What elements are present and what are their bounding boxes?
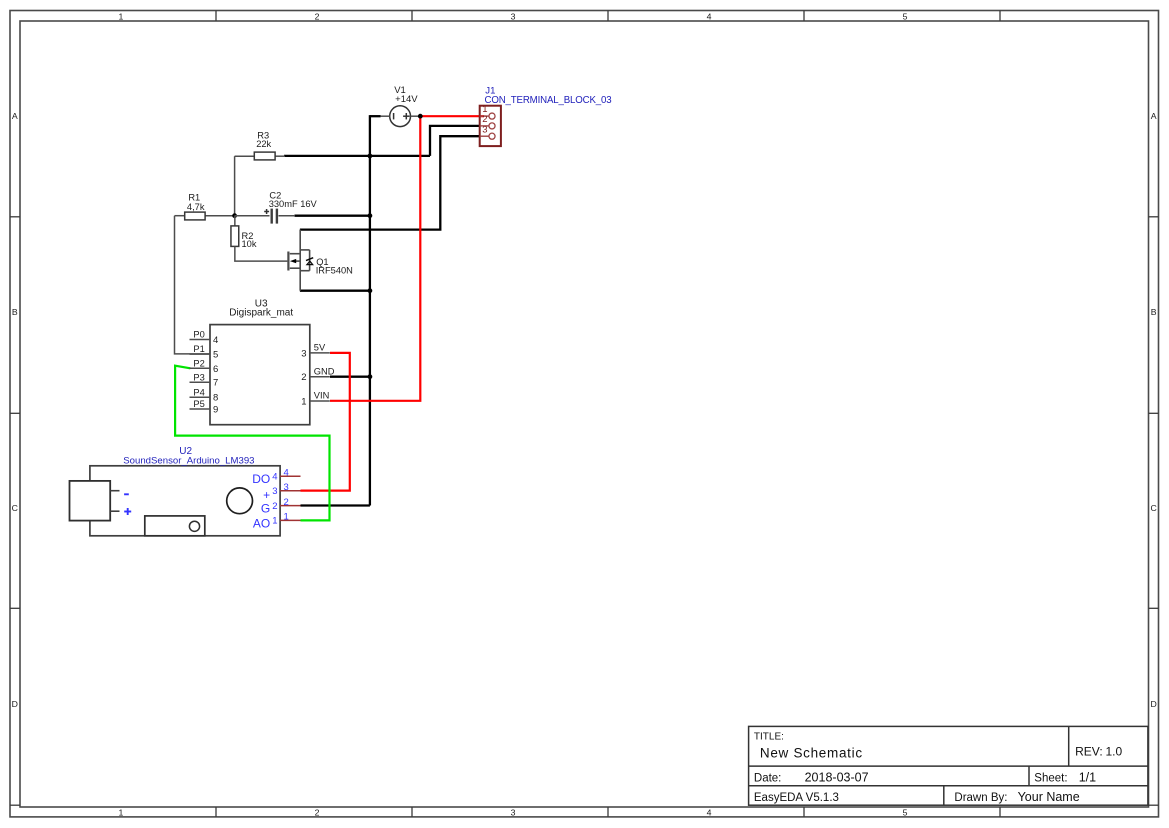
svg-text:VIN: VIN xyxy=(314,391,330,401)
svg-text:4,7k: 4,7k xyxy=(187,202,205,212)
svg-text:3: 3 xyxy=(272,486,277,497)
connector J1 xyxy=(480,106,501,146)
junction dot R3 net xyxy=(368,154,373,159)
svg-text:A: A xyxy=(12,111,18,121)
svg-text:+: + xyxy=(263,488,270,502)
frame column numbers top xyxy=(118,11,907,21)
wire black U3 GND net xyxy=(330,376,370,378)
svg-text:GND: GND xyxy=(314,366,335,376)
frame row tick marks left xyxy=(10,217,20,805)
svg-text:3: 3 xyxy=(284,482,289,493)
U2 pin DO/4 xyxy=(252,467,300,486)
U2 big circle xyxy=(227,488,253,514)
IC U3 body xyxy=(210,325,310,425)
svg-text:5V: 5V xyxy=(314,343,326,353)
wire green P2 to AO xyxy=(175,366,329,521)
label plus xyxy=(124,508,131,515)
U3 pin P4 xyxy=(190,387,219,403)
module U2 body xyxy=(90,466,280,536)
svg-text:New Schematic: New Schematic xyxy=(760,745,863,760)
svg-text:Date:: Date: xyxy=(754,772,782,784)
Q1 body diode xyxy=(306,258,313,265)
U2 pin AO/1 xyxy=(253,512,301,531)
svg-text:330mF 16V: 330mF 16V xyxy=(269,199,318,209)
svg-text:2: 2 xyxy=(301,372,306,383)
U3 pin P3 xyxy=(190,372,219,388)
svg-text:4: 4 xyxy=(272,471,277,482)
U3 pin P0 xyxy=(190,330,219,346)
svg-text:Sheet:: Sheet: xyxy=(1034,772,1067,784)
U3 pin 5V xyxy=(301,343,330,360)
title block text xyxy=(754,732,1123,804)
svg-text:D: D xyxy=(12,699,18,709)
wire red VIN vertical xyxy=(330,116,420,401)
junction dot R1/R2/C2 node xyxy=(232,213,237,218)
transistor Q1 xyxy=(288,230,309,291)
svg-text:2: 2 xyxy=(315,808,320,818)
svg-text:5: 5 xyxy=(213,350,218,361)
svg-text:2: 2 xyxy=(482,114,487,125)
label minus xyxy=(124,493,129,495)
svg-text:Your Name: Your Name xyxy=(1018,790,1080,804)
svg-text:4: 4 xyxy=(707,11,712,21)
svg-text:P1: P1 xyxy=(193,344,204,354)
svg-text:1: 1 xyxy=(118,808,123,818)
svg-text:TITLE:: TITLE: xyxy=(754,732,784,743)
U3 pin VIN xyxy=(301,391,330,408)
svg-text:EasyEDA V5.1.3: EasyEDA V5.1.3 xyxy=(754,792,839,804)
svg-text:1: 1 xyxy=(272,516,277,527)
svg-text:1: 1 xyxy=(284,512,289,523)
svg-text:C: C xyxy=(1151,503,1157,513)
svg-text:3: 3 xyxy=(511,11,516,21)
svg-text:G: G xyxy=(261,502,270,516)
svg-text:C: C xyxy=(12,503,18,513)
svg-text:22k: 22k xyxy=(256,139,271,149)
wire black Q1 source net xyxy=(300,290,370,292)
U3 pin P2 xyxy=(190,358,219,374)
U2 mic block xyxy=(70,481,111,521)
svg-text:4: 4 xyxy=(707,808,712,818)
resistor R3 xyxy=(235,152,285,216)
svg-text:3: 3 xyxy=(511,808,516,818)
svg-text:6: 6 xyxy=(213,364,218,375)
svg-text:1: 1 xyxy=(118,11,123,21)
svg-text:B: B xyxy=(1151,307,1157,317)
frame column numbers bottom xyxy=(118,808,907,818)
frame row letters left xyxy=(12,111,18,709)
U2 pin G/2 xyxy=(261,497,301,516)
wire red V1 to J1 pin1 xyxy=(420,115,484,117)
svg-text:Digispark_mat: Digispark_mat xyxy=(229,308,293,319)
svg-text:4: 4 xyxy=(284,467,289,478)
wire black C2 net xyxy=(295,215,370,217)
svg-text:3: 3 xyxy=(301,348,306,359)
U2 pin +/3 xyxy=(263,482,300,502)
Q1 gate arrow xyxy=(290,259,296,263)
wire red 5V net xyxy=(301,353,350,491)
title block xyxy=(749,726,1148,805)
svg-text:2: 2 xyxy=(284,497,289,508)
svg-text:DO: DO xyxy=(252,472,270,486)
U3 pin P1 xyxy=(190,344,219,360)
svg-text:REV:: REV: xyxy=(1075,745,1103,759)
svg-text:1.0: 1.0 xyxy=(1106,745,1123,759)
svg-text:5: 5 xyxy=(903,11,908,21)
svg-text:+14V: +14V xyxy=(395,94,418,105)
wire black V1-left to main vertical xyxy=(370,115,381,117)
svg-text:P5: P5 xyxy=(193,399,204,409)
svg-text:2: 2 xyxy=(315,11,320,21)
svg-text:8: 8 xyxy=(213,393,218,404)
svg-text:2018-03-07: 2018-03-07 xyxy=(805,770,869,784)
junction dot Q1 source net xyxy=(368,288,373,293)
svg-text:P4: P4 xyxy=(193,387,204,397)
resistor R2 xyxy=(231,216,287,261)
wire black J1 pin3 to drain xyxy=(300,136,480,229)
frame row letters right xyxy=(1151,111,1157,709)
svg-text:1/1: 1/1 xyxy=(1079,770,1096,784)
junction dot GND net xyxy=(368,374,373,379)
wire black main GND vertical xyxy=(369,115,371,505)
U2 small circle xyxy=(189,521,199,531)
voltage source V1 xyxy=(380,106,420,127)
U3 pin GND xyxy=(301,366,335,383)
resistor R1 xyxy=(175,212,235,354)
U2 bottom sub-block xyxy=(145,516,205,536)
svg-text:D: D xyxy=(1151,699,1157,709)
svg-text:A: A xyxy=(1151,111,1157,121)
U2 mic stubs xyxy=(110,490,119,492)
svg-text:B: B xyxy=(12,307,18,317)
svg-text:9: 9 xyxy=(213,405,218,416)
junction dot C2 net xyxy=(368,213,373,218)
svg-text:4: 4 xyxy=(213,335,218,346)
svg-text:SoundSensor_Arduino_LM393: SoundSensor_Arduino_LM393 xyxy=(123,456,254,467)
svg-text:R1: R1 xyxy=(188,193,200,203)
svg-text:IRF540N: IRF540N xyxy=(316,266,353,276)
junction dot V1 output xyxy=(418,114,423,119)
svg-text:2: 2 xyxy=(272,501,277,512)
svg-text:3: 3 xyxy=(482,125,487,136)
svg-text:P2: P2 xyxy=(193,358,204,368)
svg-text:Drawn By:: Drawn By: xyxy=(954,792,1007,804)
svg-text:CON_TERMINAL_BLOCK_03: CON_TERMINAL_BLOCK_03 xyxy=(485,95,612,106)
wire black R3 net horizontal xyxy=(284,155,430,157)
U3 pin P5 xyxy=(190,399,219,415)
svg-text:7: 7 xyxy=(213,378,218,389)
svg-text:P3: P3 xyxy=(193,372,204,382)
svg-text:1: 1 xyxy=(301,397,306,408)
frame column tick marks bottom xyxy=(216,807,1000,817)
capacitor C2 xyxy=(235,209,295,224)
frame row tick marks right xyxy=(1149,217,1159,805)
wire black J1 pin2 vertical xyxy=(430,126,480,156)
wire black U2 G net xyxy=(301,504,370,506)
frame column tick marks top xyxy=(216,11,1000,22)
svg-text:P0: P0 xyxy=(193,330,204,340)
svg-text:5: 5 xyxy=(903,808,908,818)
svg-text:AO: AO xyxy=(253,516,270,530)
svg-text:10k: 10k xyxy=(242,239,257,249)
